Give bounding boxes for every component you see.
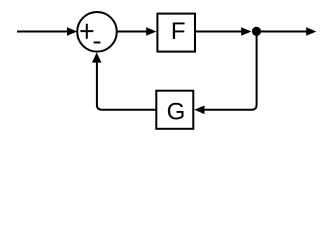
input arrowhead into summing junction [67,27,77,36]
wire F to node [195,31,243,33]
wire summing junction to F [117,31,148,33]
wire input line [17,31,69,33]
arrowhead into summing junction bottom [92,53,102,63]
wire node down and left to G [204,32,256,110]
wire G left and up to summing junction [97,62,156,110]
block G box [156,91,193,129]
minus sign [94,42,101,44]
svg-text:G: G [167,99,186,126]
svg-text:F: F [171,18,186,45]
output arrowhead [306,27,316,36]
summing junction circle [77,12,117,52]
plus sign [80,24,93,39]
wire node to output [257,31,308,33]
arrowhead into G [194,106,204,115]
node junction dot [252,27,261,36]
arrowhead into F [146,27,156,36]
arrowhead into node [241,27,251,36]
block F box [157,14,195,52]
